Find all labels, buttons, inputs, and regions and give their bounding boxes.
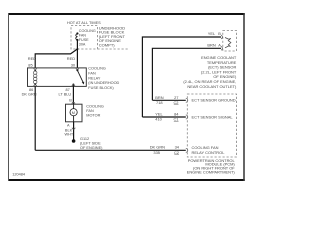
svg-text:RELAY CONTROL: RELAY CONTROL — [192, 150, 226, 155]
svg-text:ENGINE COMPARTMENT): ENGINE COMPARTMENT) — [187, 169, 236, 174]
svg-text:A: A — [218, 43, 221, 48]
svg-text:C1: C1 — [173, 117, 178, 122]
svg-text:FAN: FAN — [79, 34, 87, 38]
svg-text:FUSE BLOCK): FUSE BLOCK) — [88, 86, 114, 90]
svg-text:M: M — [72, 111, 75, 115]
svg-text:410: 410 — [155, 117, 162, 122]
svg-text:FAN: FAN — [86, 109, 94, 113]
svg-text:87: 87 — [66, 88, 70, 92]
svg-text:ECT SENSOR SIGNAL: ECT SENSOR SIGNAL — [192, 114, 234, 119]
svg-text:COOLING: COOLING — [88, 67, 106, 71]
svg-text:OF ENGINE): OF ENGINE) — [80, 146, 103, 150]
svg-text:A: A — [67, 124, 70, 128]
svg-text:B: B — [218, 31, 221, 36]
svg-text:30A: 30A — [79, 42, 86, 46]
svg-text:120484: 120484 — [12, 172, 26, 176]
svg-text:RELAY: RELAY — [88, 76, 101, 80]
svg-text:WHT: WHT — [65, 132, 74, 136]
svg-text:COMPT): COMPT) — [99, 43, 116, 48]
svg-text:(LEFT SIDE: (LEFT SIDE — [80, 142, 101, 146]
svg-text:G112: G112 — [80, 137, 89, 141]
svg-text:DK GRN: DK GRN — [22, 92, 37, 96]
svg-text:LT BLU: LT BLU — [59, 93, 72, 97]
svg-text:C2: C2 — [174, 150, 179, 155]
svg-text:HOT AT ALL TIMES: HOT AT ALL TIMES — [67, 21, 101, 25]
svg-text:718: 718 — [156, 100, 163, 105]
svg-text:C2: C2 — [173, 100, 178, 105]
svg-text:NEAR COOLANT OUTLET): NEAR COOLANT OUTLET) — [187, 84, 237, 89]
svg-text:ECT SENSOR GROUND: ECT SENSOR GROUND — [192, 98, 236, 103]
svg-text:YEL: YEL — [208, 31, 216, 36]
svg-text:COOLING: COOLING — [86, 104, 104, 108]
svg-text:FUSE: FUSE — [79, 38, 89, 42]
svg-text:COOLING: COOLING — [79, 29, 96, 33]
svg-text:(IN UNDERHOOD: (IN UNDERHOOD — [88, 81, 119, 85]
svg-text:335: 335 — [153, 150, 160, 155]
svg-text:MOTOR: MOTOR — [86, 113, 100, 117]
svg-text:RED: RED — [67, 56, 75, 61]
svg-text:FAN: FAN — [88, 71, 96, 75]
svg-text:RED: RED — [28, 56, 36, 61]
svg-text:B: B — [69, 98, 72, 102]
svg-text:BRN: BRN — [207, 43, 215, 48]
